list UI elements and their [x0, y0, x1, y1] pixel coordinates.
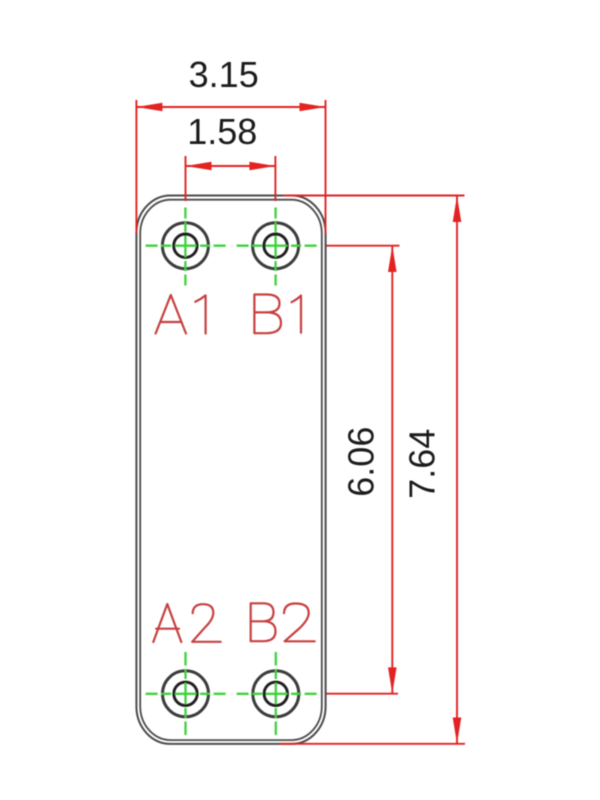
dimension 6.06 line [391, 246, 393, 694]
dimension 1.58 line [186, 165, 276, 167]
centerline A1 vertical [184, 208, 186, 287]
port B2 [253, 671, 299, 717]
svg-text:6.06: 6.06 [340, 427, 381, 497]
plate outline inner [140, 200, 322, 740]
centerline B2 horizontal [237, 693, 317, 695]
port A1 [162, 223, 208, 269]
centerline B2 vertical [275, 652, 277, 735]
dimension 1.58 extension line right [274, 156, 276, 201]
dimension 7.64 arrowhead top [453, 196, 462, 222]
dimension 7.64 extension line bottom [280, 743, 465, 745]
port A2 [163, 671, 209, 717]
dimension 3.15 arrowhead left [136, 103, 162, 112]
svg-text:3.15: 3.15 [189, 54, 259, 95]
dimension 6.06 arrowhead top [388, 246, 397, 272]
dimension 3.15 extension line left [135, 100, 137, 234]
dimension 3.15 arrowhead right [300, 103, 326, 112]
centerline A2 horizontal [146, 693, 226, 695]
port label B1 [254, 295, 301, 334]
dimension 7.64 arrowhead bottom [453, 718, 462, 744]
centerline B1 horizontal [237, 245, 317, 247]
plate outline outer [136, 196, 325, 744]
dimension 1.58 arrowhead left [186, 162, 212, 171]
centerline A1 horizontal [146, 245, 226, 247]
dimension 7.64 extension line top [283, 195, 465, 197]
port label A1 [156, 295, 206, 334]
dimension 3.15 line [136, 106, 325, 108]
dimension 7.64 line [456, 196, 458, 744]
svg-text:7.64: 7.64 [401, 429, 442, 499]
svg-text:1.58: 1.58 [187, 111, 257, 152]
dimension 1.58 extension line left [185, 156, 187, 201]
dimension 6.06 extension line top [327, 245, 400, 247]
centerline B1 vertical [274, 208, 276, 287]
dimension 6.06 extension line bottom [327, 693, 399, 695]
centerline A2 vertical [184, 652, 186, 735]
dimension 1.58 arrowhead right [249, 162, 275, 171]
port label A2 [153, 604, 220, 642]
port label B2 [251, 603, 315, 641]
port B1 [253, 223, 299, 269]
dimension 6.06 arrowhead bottom [388, 667, 397, 693]
dimension 3.15 extension line right [325, 100, 327, 234]
